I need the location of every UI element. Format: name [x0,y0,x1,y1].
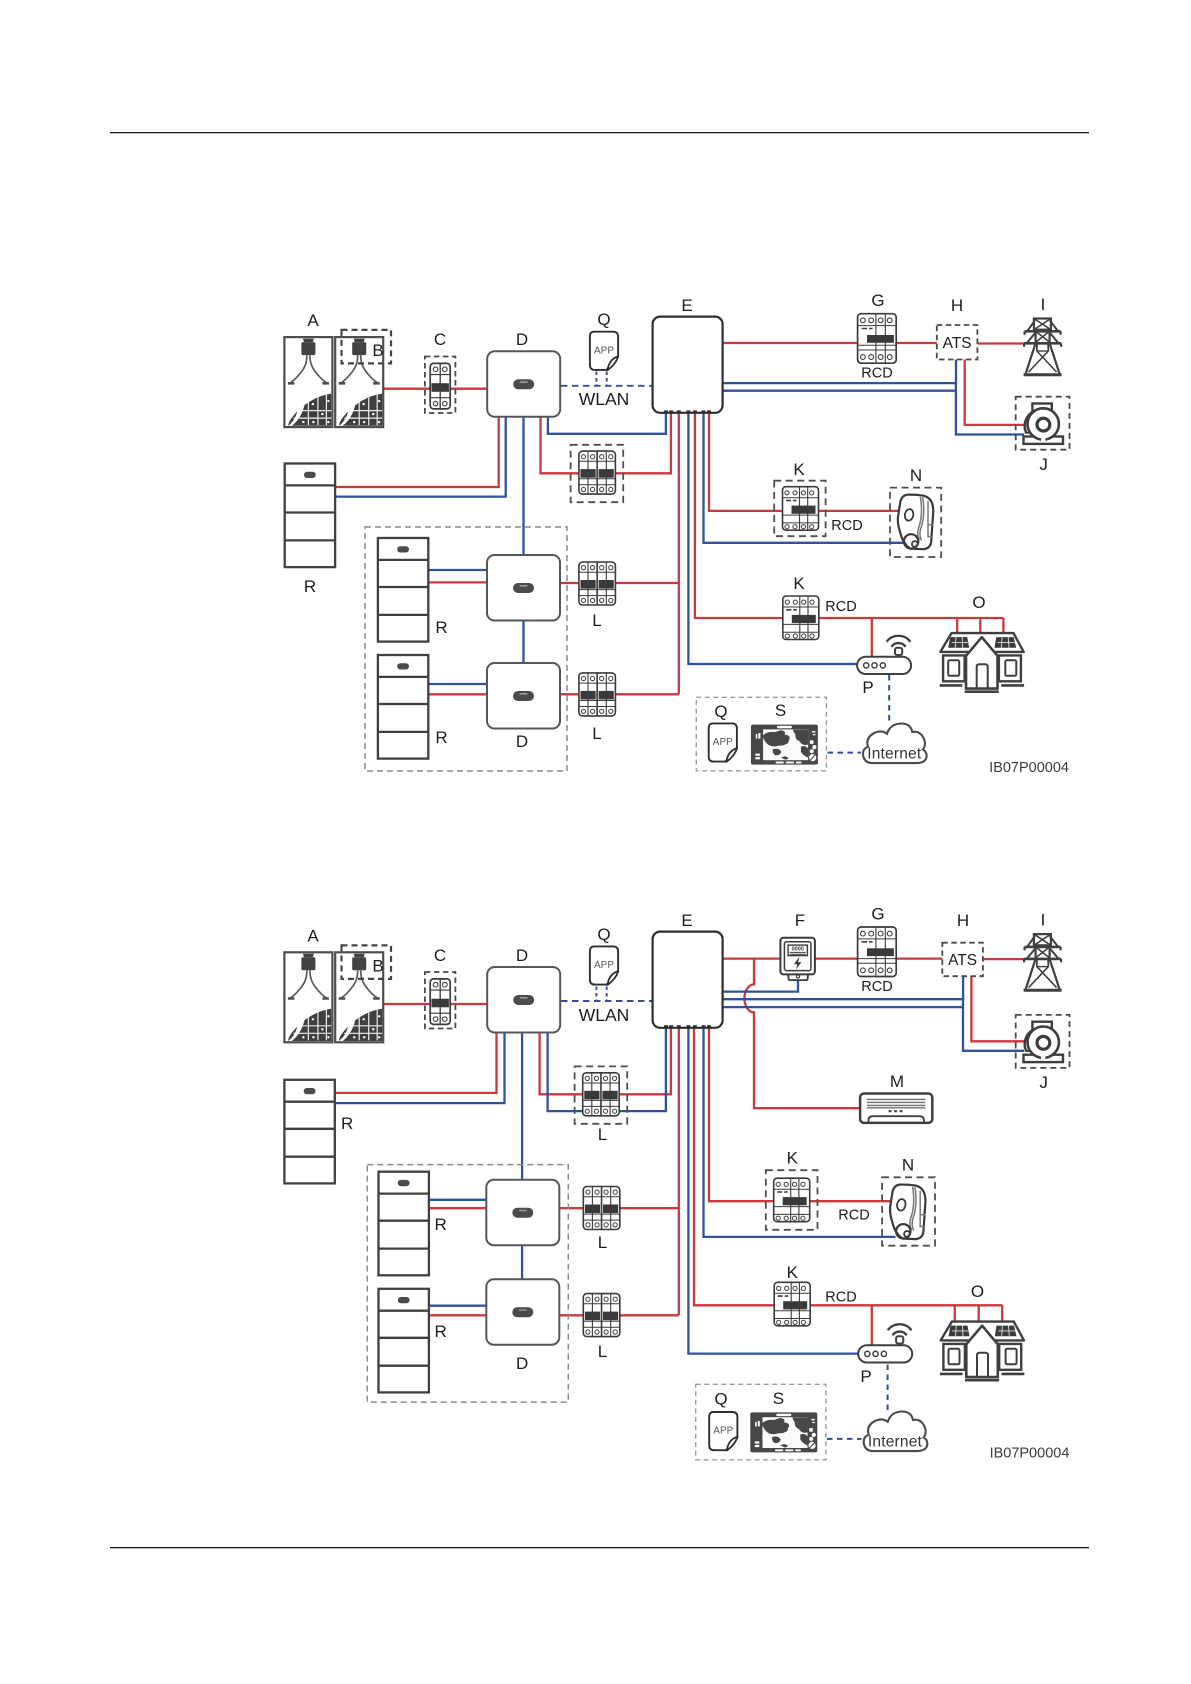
wire: blue return cable from EV charger N to E [704,1027,896,1237]
svg-text:D: D [516,1354,528,1373]
EV charger N [898,495,933,550]
wire: dashed link screen S to Internet [828,752,862,754]
svg-text:R: R [304,577,316,596]
svg-text:R: R [341,1114,353,1133]
svg-text:J: J [1039,455,1048,474]
inverter D [487,351,560,417]
wire: blue cable E to router P [688,1027,859,1354]
monitoring screen S [750,1412,817,1452]
wire: inverter 2 red output through breaker L to E feeder [559,582,679,584]
DC switch C dashed box [425,972,456,1029]
svg-text:A: A [307,927,319,946]
pump J dashed box [1016,397,1070,450]
svg-text:B: B [372,341,383,360]
svg-text:D: D [516,946,528,965]
wire: blue cable E down to pump J [722,999,1024,1051]
svg-text:R: R [435,728,447,747]
wifi router P [857,636,911,674]
wifi router P [858,1324,912,1362]
wire: red branch with hop over blue lines down to air conditioner M [744,959,861,1109]
ATS dashed box H [942,943,983,977]
breaker L dashed box near E [575,1066,628,1123]
wire: inverter 3 red output through breaker L to E feeder [559,693,679,695]
svg-text:M: M [890,1072,904,1091]
svg-text:C: C [434,946,446,965]
inverter D2 [487,555,560,621]
dashed box around cascaded inverters and batteries [365,527,567,771]
APP icon Q2 [709,723,737,762]
wire: red cable ATS down to pump J [965,359,1024,425]
main breaker G [858,314,897,364]
svg-text:K: K [793,574,805,593]
wire: inverter D AC red output through breaker L to box E [541,412,671,473]
svg-text:R: R [435,1322,447,1341]
wire: blue return cable from EV charger N to E [704,412,904,543]
monitoring screen S [751,725,818,765]
dashed box B around PV connector [342,945,392,979]
svg-text:L: L [598,1233,607,1252]
wire: cascading blue link second to third inverter [521,1245,523,1281]
svg-text:ATS: ATS [948,952,977,969]
wire: grid red cable from E through meter F and breaker G to ATS [722,957,943,959]
AC breaker L2 [579,562,616,605]
svg-text:RCD: RCD [861,366,892,382]
RCD breaker K2 [783,596,819,640]
svg-text:E: E [681,911,692,930]
svg-text:I: I [1041,295,1046,314]
svg-text:WLAN: WLAN [579,1005,630,1025]
wire: blue cable E to router P [688,412,858,664]
svg-text:Q: Q [597,310,610,329]
dashed box around cascaded inverters and batteries [367,1165,568,1403]
APP icon Q [590,332,618,371]
DC switch C dashed box [425,357,456,414]
battery R3 [379,1289,429,1393]
svg-text:L: L [598,1342,607,1361]
svg-text:H: H [957,911,969,930]
wire: blue cable E to meter F [722,981,798,992]
battery R [285,464,335,568]
APP icon Q2 [709,1412,737,1451]
dashed box around Q and S [696,1384,826,1460]
wire: cascading blue link D to second inverter [521,1032,523,1181]
svg-text:K: K [787,1263,799,1282]
wire: inverter 2 red output through breaker L2 to E feeder [558,1207,679,1209]
svg-text:I: I [1041,911,1046,930]
EV charger N [890,1185,925,1240]
house O [940,633,1024,692]
internet cloud [863,723,927,763]
svg-text:S: S [775,701,786,720]
wire: red branch down to router P [871,1305,873,1346]
svg-text:Q: Q [597,925,610,944]
svg-text:RCD: RCD [838,1208,869,1224]
svg-text:N: N [910,466,922,485]
svg-text:O: O [971,1282,984,1301]
wire: red drops into house O roof [957,618,1003,633]
internet cloud [864,1411,928,1451]
page footer rule [110,1547,1089,1548]
grid tower I [1024,319,1062,375]
inverter D2 [486,1180,559,1246]
svg-text:J: J [1039,1073,1048,1092]
house O [940,1322,1024,1381]
EV charger N dashed box [882,1177,935,1245]
svg-text:L: L [598,1125,607,1144]
wire: red household circuit E through breaker K to house O [695,412,1004,618]
svg-text:RCD: RCD [831,518,862,534]
wire: red cable ATS to grid tower I [977,342,1025,344]
DC switch C [430,979,450,1025]
wire: red cable ATS down to pump J [971,976,1024,1041]
battery R [284,1080,334,1184]
svg-text:RCD: RCD [825,599,856,615]
DC switch C [430,363,450,409]
wire: battery R red cable to inverter D [334,1032,497,1093]
wire: red backup circuit E through breaker K to EV charger N [709,1027,892,1201]
svg-text:F: F [795,911,805,930]
backup power box E [653,317,723,413]
battery R2 [378,538,428,642]
solar panel string A [284,952,332,1042]
wire: inverter 3 red output through breaker L3 to E feeder [558,1314,679,1316]
grid tower I [1024,934,1062,990]
pump J dashed box [1016,1015,1070,1068]
solar panel string A [284,337,332,427]
ATS dashed box H [937,325,978,360]
svg-text:H: H [951,296,963,315]
wire: inverter D AC red output through breaker L to box E [540,1027,671,1094]
APP icon Q [590,946,618,985]
AC breaker L3 [583,1294,620,1337]
pump motor J [1024,404,1064,444]
wire: dashed link router P to Internet [888,675,890,723]
wire: battery R3 blue and red cables to inverter 3 [427,1305,488,1307]
wire: battery R2 blue and red cables to inverter 2 [427,1199,488,1201]
breaker K dashed box [766,1170,818,1230]
wire: blue cable E to ATS [722,359,956,383]
wire: WLAN dashed link D to Q and E [561,1000,652,1002]
wire: inverter D blue line to box E [548,1027,666,1111]
wire: red household circuit E through breaker K2 to house O [694,1027,1002,1305]
breaker K dashed box [774,481,825,537]
AC breaker L [583,1073,620,1116]
battery R3 [378,655,428,759]
wire: dashed link screen S to Internet [827,1438,862,1440]
svg-text:Q: Q [714,1390,727,1409]
svg-text:A: A [307,311,319,330]
air conditioner M [860,1094,932,1123]
svg-text:R: R [435,1215,447,1234]
RCD breaker K [774,1178,810,1222]
svg-text:E: E [681,296,692,315]
wire: red backup circuit E through breaker K to EV charger N [709,412,899,511]
svg-text:R: R [435,618,447,637]
svg-text:RCD: RCD [861,979,892,995]
power meter F [780,938,815,980]
wire: red branch down to router P [871,618,873,658]
page header rule [110,132,1089,133]
pump motor J [1024,1022,1064,1062]
svg-text:L: L [592,724,601,743]
inverter D3 [486,1279,559,1345]
wire: battery R3 blue and red cables to inverter 3 [428,683,489,685]
svg-text:RCD: RCD [825,1290,856,1306]
EV charger N dashed box [890,488,941,557]
svg-text:B: B [372,957,383,976]
breaker L dashed box near E [571,445,624,502]
wire: dashed link router P to Internet [887,1365,889,1412]
AC breaker L2 [583,1187,620,1230]
wire: battery R blue cable to inverter D [335,416,506,497]
main breaker G [858,927,897,977]
wire: battery R2 blue and red cables to inverter 2 [428,569,489,571]
wire: grid red cable from E through breaker G to ATS [722,342,938,344]
dashed box around Q and S [696,697,826,771]
wire: cascading blue link second to third inverter [522,620,524,664]
svg-text:G: G [871,291,884,310]
svg-text:P: P [862,678,873,697]
inverter D [487,967,560,1033]
wire: PV string red DC cable A/B to C to D [383,1003,488,1005]
wire: red feeder from E to second and third inverters [678,1027,680,1315]
svg-text:IB07P00004: IB07P00004 [990,1446,1070,1462]
svg-text:IB07P00004: IB07P00004 [989,760,1069,776]
wire: inverter D blue line to box E [548,412,666,434]
inverter D3 [487,663,560,729]
RCD breaker K2 [774,1282,810,1326]
wire: battery R blue cable to inverter D [334,1032,505,1103]
AC breaker L3 [579,673,616,716]
svg-text:C: C [434,330,446,349]
svg-text:WLAN: WLAN [579,389,630,409]
svg-text:O: O [972,593,985,612]
svg-text:Q: Q [714,702,727,721]
wire: battery R red cable to inverter D [335,416,499,487]
battery R2 [379,1172,429,1276]
RCD breaker K [783,487,819,531]
svg-text:D: D [516,732,528,751]
svg-text:K: K [793,460,805,479]
svg-text:ATS: ATS [943,335,972,352]
wire: blue cable E down to pump J [722,383,1024,435]
wire: red drops into house O roof [955,1305,1002,1321]
svg-text:P: P [860,1367,871,1386]
AC breaker L [579,451,616,494]
svg-text:D: D [516,330,528,349]
svg-text:K: K [787,1149,799,1168]
svg-text:S: S [773,1389,784,1408]
dashed box B around PV connector [342,330,392,364]
svg-text:G: G [871,905,884,924]
wire: blue cable E to ATS [722,976,963,999]
backup power box E [653,932,723,1028]
svg-text:L: L [592,611,601,630]
svg-text:N: N [902,1156,914,1175]
wire: red feeder from E to second and third inverters [678,412,680,694]
wire: WLAN dashed link D to Q and E [561,385,652,387]
wire: PV string red DC cable A/B to C to D [383,388,488,390]
wire: cascading blue link D to second inverter [522,416,524,556]
wire: red cable ATS to grid tower I [983,958,1025,960]
